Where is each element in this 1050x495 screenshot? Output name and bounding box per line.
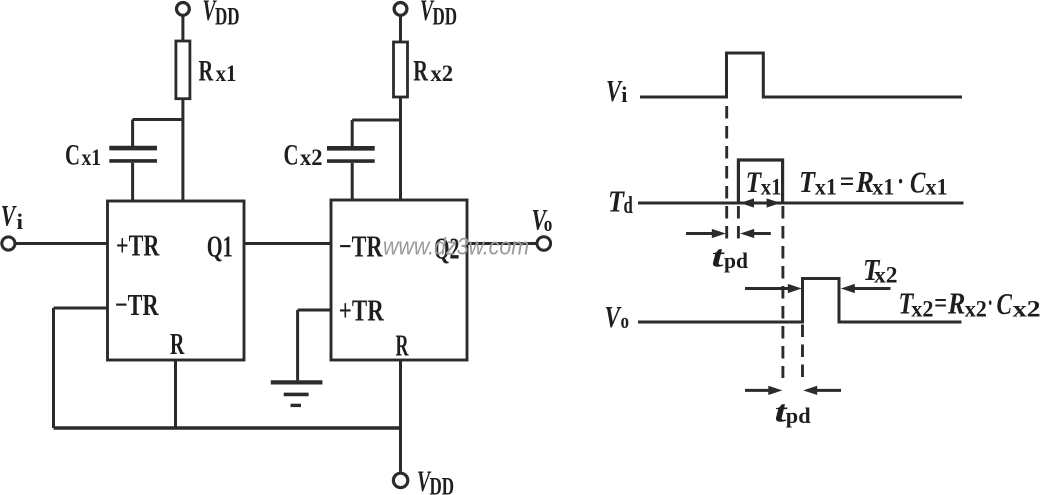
- svg-text:x2: x2: [911, 297, 933, 322]
- svg-text:R: R: [396, 328, 409, 363]
- svg-text:V: V: [605, 299, 622, 334]
- svg-text:=: =: [840, 167, 855, 198]
- svg-text:−TR: −TR: [339, 228, 383, 263]
- svg-text:pd: pd: [786, 403, 811, 428]
- svg-text:−TR: −TR: [115, 287, 159, 322]
- svg-text:x2: x2: [965, 297, 987, 322]
- svg-text:T: T: [799, 164, 816, 199]
- svg-text:C: C: [65, 139, 80, 172]
- svg-text:C: C: [910, 165, 926, 200]
- svg-text:x1: x1: [82, 145, 102, 170]
- svg-text:T: T: [608, 184, 625, 219]
- svg-text:x2: x2: [300, 145, 323, 170]
- svg-text:d: d: [624, 193, 634, 219]
- svg-text:=: =: [934, 288, 947, 319]
- svg-text:+TR: +TR: [116, 228, 160, 263]
- svg-text:DD: DD: [430, 474, 455, 495]
- svg-text:o: o: [544, 211, 553, 236]
- svg-text:x2: x2: [874, 263, 898, 288]
- svg-text:+TR: +TR: [339, 293, 384, 328]
- svg-text:x2: x2: [1013, 297, 1041, 322]
- svg-text:R: R: [199, 54, 214, 87]
- svg-text:V: V: [606, 73, 623, 108]
- svg-text:R: R: [170, 326, 185, 361]
- svg-text:x1: x1: [216, 61, 237, 86]
- svg-text:x1: x1: [815, 175, 837, 200]
- svg-text:DD: DD: [433, 4, 458, 31]
- svg-text:V: V: [1, 200, 18, 233]
- svg-text:www.dz3w.com: www.dz3w.com: [383, 234, 529, 261]
- svg-text:x1: x1: [872, 175, 894, 200]
- svg-text:·: ·: [897, 167, 904, 198]
- svg-text:Q1: Q1: [207, 228, 233, 263]
- svg-text:R: R: [855, 164, 874, 199]
- svg-text:pd: pd: [724, 248, 748, 273]
- svg-text:·: ·: [988, 288, 993, 319]
- svg-text:x2: x2: [430, 61, 453, 86]
- svg-text:R: R: [413, 54, 428, 87]
- svg-text:C: C: [284, 139, 299, 172]
- svg-text:i: i: [621, 82, 627, 107]
- svg-text:x1: x1: [925, 175, 947, 200]
- svg-text:x1: x1: [761, 174, 782, 199]
- svg-text:i: i: [17, 209, 24, 234]
- svg-text:R: R: [947, 286, 965, 321]
- svg-text:C: C: [997, 286, 1013, 321]
- svg-text:DD: DD: [215, 4, 240, 31]
- svg-text:o: o: [621, 308, 630, 333]
